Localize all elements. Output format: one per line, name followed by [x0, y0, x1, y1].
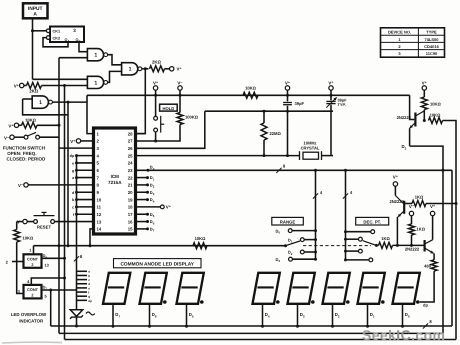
wire: hold node to 100K bottom [156, 125, 180, 142]
wire: IC pin 14 to control line [90, 229, 94, 246]
wire: pin 26 up to oscillator loop line [136, 111, 205, 148]
svg-text:INDICATOR: INDICATOR [19, 319, 44, 324]
wire: range bus drop x315.5 with 4 mark [315, 170, 317, 259]
wire: trimmer bottom to crystal right [330, 111, 332, 155]
terminal V+ above 39pF [285, 86, 289, 90]
dashed gang line [303, 245, 371, 247]
svg-text:V⁻: V⁻ [18, 183, 24, 188]
svg-text:17: 17 [128, 212, 133, 217]
svg-text:g: g [72, 169, 75, 173]
nand gate 4 oscillator (74LS00) [32, 96, 48, 108]
HOLD label box [160, 104, 178, 111]
wire: pin 18 V+ terminal [136, 206, 160, 208]
svg-text:DEVICE NO.: DEVICE NO. [388, 29, 411, 34]
wire: digit D3 pin [297, 304, 299, 326]
svg-text:74LS00: 74LS00 [424, 37, 439, 42]
svg-text:13: 13 [45, 262, 50, 267]
transistor Q1 2N2222 (top right) [414, 113, 416, 127]
svg-text:D1: D1 [150, 175, 155, 181]
svg-text:2KΩ: 2KΩ [152, 60, 161, 65]
nand gate 1 (74LS00) [87, 49, 103, 61]
svg-text:V⁺: V⁺ [422, 80, 428, 85]
svg-text:10KΩ: 10KΩ [195, 236, 207, 241]
wire: Q1 emitter D2 line [409, 128, 411, 146]
capacitor 39pF fixed [286, 94, 289, 97]
wire: gate1 output to gate3 [108, 55, 122, 65]
svg-text:20: 20 [128, 190, 133, 195]
svg-text:HOLD: HOLD [162, 106, 174, 111]
svg-text:8: 8 [429, 319, 432, 324]
wire: long control line y245.7 (pin 14 / range wiper) [34, 245, 286, 247]
wire: digit D4 pin [262, 304, 264, 326]
bottom rail y333.4 (D2 return) [59, 332, 443, 334]
wire: long top line y95.3 [87, 94, 410, 96]
wire: digit D5 pin [186, 304, 188, 326]
svg-text:2N2222: 2N2222 [397, 115, 412, 120]
decpt wiper arm [375, 244, 378, 247]
display digit D6 [140, 273, 167, 304]
decimal point switch contacts [371, 230, 375, 234]
svg-text:18: 18 [128, 205, 133, 210]
svg-text:5: 5 [45, 294, 48, 299]
wire: QA feedback to CK2 [43, 38, 68, 47]
svg-text:14: 14 [97, 227, 102, 232]
svg-text:10KΩ: 10KΩ [25, 117, 37, 122]
segment bus vertical x78 [76, 156, 78, 310]
display digit D1 [358, 273, 385, 304]
svg-text:2N2222: 2N2222 [405, 247, 420, 252]
wire: decpt bus drop x345.5 with 4 mark [345, 170, 347, 260]
svg-text:RANGE: RANGE [280, 219, 296, 224]
svg-text:V⁺: V⁺ [14, 84, 20, 89]
resistor 22M [263, 110, 266, 113]
svg-text:CLOSED: PERIOD: CLOSED: PERIOD [7, 157, 47, 162]
svg-text:1: 1 [129, 67, 132, 73]
svg-text:SeekIC.com: SeekIC.com [362, 327, 445, 343]
svg-text:e: e [72, 162, 74, 166]
display digit D2 [323, 273, 350, 304]
wire: CONT-A pin1 up to control line [33, 246, 35, 255]
wire: Q2 base from 1K right-rail [404, 203, 412, 205]
HOLD section: V+ terminal [153, 86, 157, 90]
svg-text:LED OVERFLOW: LED OVERFLOW [11, 312, 47, 317]
wire: Q3 emitter to 480 resistor [433, 253, 435, 259]
svg-text:D6: D6 [152, 312, 157, 318]
wire: pin 25 crystal line y155.6 [136, 155, 300, 157]
terminal V+ for Q1 [422, 86, 426, 90]
wire: digit bus right rail x447 [451, 170, 453, 326]
svg-text:13: 13 [97, 219, 102, 224]
nand gate 2 (74LS00) [87, 76, 103, 88]
svg-text:15: 15 [128, 227, 133, 232]
svg-text:19: 19 [128, 197, 133, 202]
wire: LED to bottom segment rail [76, 316, 78, 326]
bus mark 8 on digit bus [276, 168, 281, 173]
wire: function switch to IC pin 3 [40, 136, 60, 138]
wire: CONT-B output D7 to segment bus [41, 289, 77, 291]
svg-text:480: 480 [424, 264, 432, 269]
svg-text:26: 26 [128, 146, 133, 151]
svg-text:D4: D4 [265, 312, 270, 318]
svg-text:D0: D0 [276, 228, 281, 234]
svg-text:D2: D2 [150, 183, 155, 189]
svg-text:CRYSTAL: CRYSTAL [301, 145, 320, 150]
svg-text:22MΩ: 22MΩ [270, 131, 282, 136]
svg-text:2: 2 [6, 260, 9, 265]
svg-text:10KΩ: 10KΩ [430, 113, 442, 118]
resistor 10K to right rail [429, 118, 443, 124]
svg-text:3: 3 [73, 28, 76, 33]
svg-text:10KΩ: 10KΩ [23, 236, 35, 241]
svg-text:11: 11 [97, 205, 102, 210]
svg-text:4: 4 [320, 190, 323, 195]
reset pushbutton with V- terminal [23, 219, 27, 223]
svg-text:1: 1 [94, 53, 97, 59]
wire: digit D6 pin [149, 304, 151, 326]
svg-text:4: 4 [27, 279, 30, 284]
RANGE label box [272, 217, 304, 225]
display digit D5 [177, 273, 204, 304]
wire: D2 line right and down x443 [410, 146, 443, 333]
svg-text:COMMON ANODE LED DISPLAY: COMMON ANODE LED DISPLAY [120, 261, 194, 267]
svg-text:25: 25 [128, 153, 133, 158]
bus mark 8 on segment bus [74, 256, 79, 261]
svg-text:D4: D4 [150, 197, 155, 203]
svg-text:V⁺: V⁺ [8, 123, 14, 128]
svg-text:27: 27 [128, 139, 133, 144]
svg-text:24: 24 [128, 161, 133, 166]
svg-text:V⁻: V⁻ [409, 204, 415, 209]
scan smudge bottom left [2, 341, 62, 344]
svg-text:28: 28 [128, 131, 133, 136]
svg-text:10KΩ: 10KΩ [245, 86, 257, 91]
svg-text:D3: D3 [300, 312, 305, 318]
svg-text:c: c [72, 206, 74, 210]
svg-text:OPEN: FREQ.: OPEN: FREQ. [7, 151, 36, 156]
transistor Q2 2N2222 (middle) [393, 182, 397, 186]
wire: gate3 node down to pin 28 route [136, 69, 145, 134]
wire: to CK1 input [33, 30, 47, 32]
svg-text:D6: D6 [150, 219, 155, 225]
resistor 10K collector [423, 90, 425, 97]
wire: right rail x450 lower section [455, 204, 457, 340]
wire: digit D2 pin [332, 304, 334, 326]
vertical bus x64.5 (2K node / CONT wiring / bottom rail) [64, 86, 66, 340]
display digit D3 [288, 273, 315, 304]
svg-text:V⁺: V⁺ [177, 67, 183, 72]
display digit D0 [393, 273, 420, 304]
svg-text:23: 23 [128, 168, 133, 173]
svg-text:4: 4 [350, 190, 353, 195]
DEC PT label box [356, 217, 389, 225]
svg-text:V⁻: V⁻ [4, 135, 10, 140]
display label box COMMON ANODE LED DISPLAY [114, 259, 202, 268]
svg-text:V⁺: V⁺ [393, 175, 399, 180]
digit bus from pin 23 y170.3 [136, 169, 452, 171]
wire: gate1 input B from vertical bus [59, 57, 87, 59]
display digit D4 [253, 273, 280, 304]
svg-text:CONT: CONT [27, 287, 39, 292]
node: gate3 output junction [142, 68, 149, 70]
svg-text:1: 1 [29, 248, 32, 253]
svg-text:39pF: 39pF [295, 101, 305, 106]
svg-text:D0: D0 [405, 312, 410, 318]
wire: gate2 output to gate3 [108, 71, 122, 82]
svg-text:16: 16 [128, 219, 133, 224]
svg-text:CK2: CK2 [53, 36, 61, 40]
svg-text:dp: dp [88, 299, 92, 303]
svg-text:dp: dp [423, 302, 428, 307]
svg-text:a: a [72, 176, 75, 180]
resistor 10K in control line [193, 243, 207, 249]
wire: oscillator loop line y111.2 [205, 110, 333, 112]
resistor 10K timing with V+ terminal [14, 123, 18, 127]
svg-text:V⁺: V⁺ [153, 80, 159, 85]
wire: reset to pin 13 [55, 221, 94, 223]
svg-text:d: d [72, 191, 75, 195]
svg-text:1KΩ: 1KΩ [381, 236, 390, 241]
svg-text:D7: D7 [150, 226, 155, 232]
svg-text:D2: D2 [335, 312, 340, 318]
range switch contacts D0-D3 [288, 229, 292, 233]
wire: digit D7 pin [112, 304, 114, 326]
resistor 100K with V- terminal [178, 86, 182, 90]
wire: top line to transistor Q1 base [410, 95, 415, 119]
svg-text:11C90: 11C90 [426, 51, 438, 56]
svg-text:D5: D5 [189, 312, 194, 318]
CONT switch B (CD4016) box [24, 285, 42, 299]
svg-text:22: 22 [128, 175, 133, 180]
resistor 1K vertical with V- terminal [409, 211, 413, 215]
svg-text:dp: dp [70, 154, 75, 158]
transistor Q3 2N2222 (bottom right) [430, 211, 434, 215]
IC U1 ICM7216A body [94, 128, 136, 234]
svg-text:INPUT: INPUT [28, 6, 43, 12]
wire: 10K down to CONT2 pin 3 [17, 242, 24, 294]
svg-text:V⁻: V⁻ [177, 80, 183, 85]
nand gate 3 (74LS00) [122, 63, 138, 75]
svg-text:D2: D2 [402, 144, 407, 150]
input terminal INPUT A box [23, 3, 48, 18]
segment ladder stubs near displays [77, 270, 88, 272]
svg-text:10KΩ: 10KΩ [430, 102, 442, 107]
LED overflow diode [70, 310, 82, 317]
function switch SW1 [10, 135, 14, 139]
svg-text:A: A [33, 11, 37, 17]
display digit D7 [103, 273, 130, 304]
wire: digit D1 pin [367, 304, 369, 326]
svg-text:D1: D1 [370, 312, 375, 318]
svg-text:1: 1 [94, 80, 97, 86]
wire: 10K to right rail x450 [443, 121, 457, 204]
svg-text:1KΩ: 1KΩ [417, 227, 426, 232]
svg-text:V⁺: V⁺ [430, 204, 436, 209]
wire: oscillator feedback/control vertical x68 [67, 102, 69, 246]
svg-text:21: 21 [128, 183, 133, 188]
svg-text:8: 8 [80, 254, 83, 259]
svg-text:D2: D2 [288, 250, 293, 256]
resistor 10K at reset line [17, 221, 23, 223]
segment bus stubs left (dp e g a d b c f) [77, 155, 94, 157]
wire: pin 28 from gate3 node route [136, 133, 145, 135]
svg-text:1: 1 [39, 100, 42, 106]
wire: digit D0 pin [402, 304, 404, 326]
svg-text:V⁺: V⁺ [166, 205, 172, 210]
prescaler U3 11C90 box [50, 27, 84, 43]
svg-text:100KΩ: 100KΩ [185, 115, 199, 120]
terminal V+ after 3K [165, 68, 170, 70]
wire: CONT-B pin4 up and right to bus x63.5 [31, 278, 64, 285]
bus mark 8 on bottom rail [423, 323, 428, 328]
wire: V+ to pin 2 [76, 139, 80, 143]
wire: pin 3 feed from vertical bus [59, 147, 94, 149]
bottom segment rail y326.3 [51, 325, 452, 327]
svg-text:V⁺: V⁺ [328, 80, 334, 85]
wire: CONT-A output D8 to bus x67.5 [41, 257, 65, 259]
svg-text:D3: D3 [276, 257, 281, 263]
node: 2K line to vertical bus x64.5 [63, 84, 66, 87]
svg-text:CD4016: CD4016 [424, 44, 439, 49]
svg-text:12: 12 [97, 212, 102, 217]
svg-text:D3: D3 [150, 190, 155, 196]
svg-text:f: f [73, 213, 75, 217]
CONT switch A (CD4016) box [24, 254, 42, 267]
range wiper arm [284, 244, 287, 247]
svg-text:TYP.: TYP. [338, 102, 346, 107]
wire: Q2 emitter down to node [398, 211, 404, 217]
svg-text:ICM: ICM [111, 174, 120, 179]
svg-text:1KΩ: 1KΩ [415, 194, 424, 199]
svg-text:TYPE: TYPE [426, 29, 437, 34]
wire: gate4 feedback loop [23, 98, 33, 100]
svg-text:CK1: CK1 [53, 30, 61, 34]
svg-text:RESET: RESET [37, 225, 52, 230]
device table [381, 28, 445, 57]
svg-text:8: 8 [283, 163, 286, 168]
wire: pin 27 to hold node [136, 140, 156, 142]
wire: gate2 input A from INPUT A line [33, 78, 88, 80]
vertical bus x59 (gate1-b / osc / bottom rail) [58, 58, 60, 334]
svg-text:FUNCTION SWITCH: FUNCTION SWITCH [3, 145, 45, 150]
wire: 1K to Q2 base node [393, 244, 425, 246]
wire: gate4 output to IC pin 1 [53, 102, 94, 134]
resistor 2K with V+ terminal [20, 83, 24, 87]
wire: INPUT A drop line [32, 18, 34, 79]
wire: V- to pin 8 [24, 183, 28, 187]
wire: QC to gate 1 input [79, 42, 87, 52]
resistor 480 ohm [431, 260, 437, 271]
svg-text:D5: D5 [150, 212, 155, 218]
wire: gate2 input B from 2K resistor line [45, 85, 87, 87]
svg-text:10: 10 [97, 197, 102, 202]
svg-text:7216A: 7216A [108, 180, 122, 185]
svg-text:DEC. PT.: DEC. PT. [363, 219, 381, 224]
svg-text:CONT: CONT [27, 257, 39, 262]
svg-text:V⁺: V⁺ [285, 80, 291, 85]
svg-text:2N2222: 2N2222 [389, 199, 404, 204]
resistor 1K base of Q2 [412, 201, 426, 207]
resistor 3K pull-up [150, 66, 165, 72]
resistor 10K in top line [243, 92, 258, 98]
svg-text:V⁺: V⁺ [70, 139, 76, 144]
trimmer capacitor 39pF TYP with V+ terminal [329, 86, 333, 90]
svg-text:b: b [72, 198, 75, 202]
wire: hold button to pin 27 node [155, 132, 157, 141]
bottom rail y339.5 [65, 339, 457, 341]
wire: riser D7 wire to bottom segment rail [50, 290, 52, 326]
resistor 1K from decpt wiper [376, 244, 378, 246]
svg-text:D7: D7 [115, 312, 120, 318]
wire: 480 down to dp of last display [420, 271, 434, 302]
wire: CONT-A pin2 stub [12, 261, 24, 263]
node: junction INPUT-A / CK1 [31, 29, 34, 32]
wire: cap column down to crystal line [287, 111, 289, 155]
svg-text:2KΩ: 2KΩ [29, 89, 38, 94]
hold pushbutton [155, 95, 157, 116]
svg-text:D1: D1 [288, 237, 293, 243]
